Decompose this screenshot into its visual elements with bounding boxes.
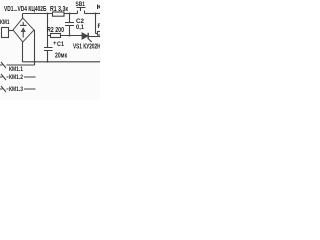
wire bridge bottom stub down [22,42,24,62]
relay contact KM1.3 [0,86,36,92]
junction top rail / R2 branch [47,13,49,15]
wire bridge top stub [22,14,24,19]
wire vertical R2/C1 branch [47,14,49,48]
bridge rectifier VD1-VD4 diamond [13,18,34,42]
wire right edge vertical (rail to R3 fragment) [96,14,98,34]
wire top rail mid (R1 to SB1 left terminal) [64,13,78,15]
relay contact KM1.1 [0,62,35,68]
junction bottom rail / C1 [47,61,49,63]
svg-text:К: К [97,4,101,11]
svg-text:0,1: 0,1 [76,24,84,31]
wire R2 right lead to VS1 [61,35,83,37]
thyristor VS1 [82,33,88,39]
wire top rail left (bridge top to R1) [23,13,53,15]
junction bottom rail / AC node [34,61,36,63]
junction top rail / right edge branch [95,13,97,15]
resistor R1 [53,12,65,16]
capacitor C2 [65,14,74,36]
wire bottom rail [23,61,101,63]
bridge inner diode [20,22,27,38]
svg-text:SB1: SB1 [76,1,86,8]
svg-text:R1 3,3к: R1 3,3к [50,6,68,13]
svg-text:VS1 КУ202Н: VS1 КУ202Н [73,43,100,50]
wire bridge right corner down (AC node) [33,30,36,65]
junction top rail / C2 [69,13,71,15]
wire VS1 cathode to right edge [88,36,100,38]
resistor R2 [51,34,61,38]
svg-text:R2 200: R2 200 [47,27,64,34]
relay contact KM1.2 [0,74,36,80]
svg-text:КМ1: КМ1 [0,19,10,26]
svg-text:С1: С1 [57,41,64,48]
thyristor VS1 gate [89,39,92,42]
svg-text:КМ1.1: КМ1.1 [9,66,23,73]
relay coil KM1 [2,28,9,38]
capacitor C1 plates [44,48,53,62]
svg-text:20мк: 20мк [55,53,67,60]
junction R2 / C2 / VS1 anode [69,35,71,37]
svg-text:R: R [98,23,101,30]
svg-text:VD1...VD4 КЦ402Б: VD1...VD4 КЦ402Б [4,6,47,13]
wire R2 left lead [48,35,51,37]
svg-text:КМ1.3: КМ1.3 [9,86,23,93]
svg-text:КМ1.2: КМ1.2 [9,74,23,81]
resistor R3 fragment at edge [98,32,102,36]
wire KM1 to bridge left corner [9,30,14,32]
wire top rail right (SB1 right terminal to right edge) [85,13,101,15]
push button SB1 [77,8,86,14]
